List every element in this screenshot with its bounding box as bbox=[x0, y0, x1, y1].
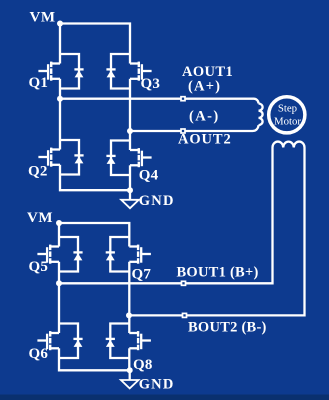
wire Q7 source through crossover to BOUT2 node bbox=[128, 272, 130, 316]
svg-text:Q5: Q5 bbox=[29, 259, 49, 275]
svg-text:Step: Step bbox=[278, 103, 297, 115]
svg-text:BOUT2 (B-): BOUT2 (B-) bbox=[188, 320, 267, 336]
node BOUT1 (junction dot) bbox=[56, 280, 62, 286]
svg-text:Q7: Q7 bbox=[132, 267, 152, 283]
svg-text:(A+): (A+) bbox=[188, 79, 221, 95]
node VM-B (junction dot) bbox=[56, 220, 62, 226]
inductor winding A (motor phase A coil) bbox=[259, 104, 263, 126]
node GND-A junction (junction dot) bbox=[127, 187, 133, 193]
svg-text:VM: VM bbox=[30, 10, 56, 26]
wire motor winding B right leg to BOUT2 (B-) bbox=[129, 148, 305, 316]
transistor Q5 (NMOS with body diode) bbox=[37, 237, 78, 272]
wire Q4 source to ground rail A bbox=[129, 175, 131, 190]
diode D7 (body diode of Q7) bbox=[106, 252, 115, 260]
wire motor winding A to AOUT2 (A-) bbox=[130, 125, 259, 131]
svg-text:Q8: Q8 bbox=[133, 357, 153, 373]
svg-text:VM: VM bbox=[27, 210, 53, 226]
terminal A+ (connector square) bbox=[181, 97, 185, 101]
transistor Q7 (NMOS with body diode) bbox=[110, 237, 151, 272]
wire Q6 source to ground rail B bbox=[59, 358, 129, 370]
svg-text:(A-): (A-) bbox=[189, 109, 220, 125]
transistor Q6 (NMOS with body diode) bbox=[37, 324, 78, 359]
svg-text:BOUT1 (B+): BOUT1 (B+) bbox=[177, 265, 259, 281]
wire Q5 source to BOUT1 node bbox=[58, 272, 60, 284]
wire Q3 source through crossover to AOUT2 node bbox=[129, 89, 131, 132]
diode D8 (body diode of Q8) bbox=[106, 339, 115, 347]
bottom edge band bbox=[0, 395, 329, 400]
ground GND-B bbox=[121, 370, 139, 388]
svg-text:Q6: Q6 bbox=[29, 346, 49, 362]
wire AOUT2 node to Q4 drain bbox=[129, 131, 131, 141]
svg-text:Q4: Q4 bbox=[139, 168, 159, 184]
diode D4 (body diode of Q4) bbox=[106, 156, 115, 164]
svg-text:Motor: Motor bbox=[274, 116, 301, 128]
svg-text:Q2: Q2 bbox=[28, 164, 48, 180]
diode D3 (body diode of Q3) bbox=[106, 69, 115, 77]
node VM-A (junction dot) bbox=[57, 21, 63, 27]
node AOUT2 (junction dot) bbox=[127, 128, 133, 134]
terminal B- (connector square) bbox=[183, 313, 187, 317]
svg-text:Q3: Q3 bbox=[141, 76, 161, 92]
diode D1 (body diode of Q1) bbox=[74, 69, 83, 77]
wire BOUT2 node to Q8 drain bbox=[128, 315, 130, 323]
wire Q8 source to ground rail B bbox=[128, 358, 130, 370]
transistor Q4 (NMOS with body diode) bbox=[111, 141, 152, 176]
inductor winding B (motor phase B coil) bbox=[273, 142, 305, 148]
svg-text:GND: GND bbox=[139, 377, 175, 393]
diode D2 (body diode of Q2) bbox=[74, 155, 83, 163]
ground GND-A bbox=[121, 190, 139, 208]
wire Q2 source to ground rail A bbox=[60, 175, 130, 191]
wire AOUT1 node to Q2 drain bbox=[59, 99, 61, 140]
wire AOUT1 (A+) to motor winding A bbox=[60, 99, 259, 104]
wire VM rail A (top) bbox=[60, 24, 130, 55]
motor M1 (Step Motor circle) bbox=[269, 97, 305, 133]
svg-text:Q1: Q1 bbox=[29, 75, 49, 91]
terminal A- (connector square) bbox=[181, 129, 185, 133]
transistor Q1 (NMOS with body diode) bbox=[38, 54, 79, 89]
node GND-B junction (junction dot) bbox=[127, 367, 133, 373]
transistor Q3 (NMOS with body diode) bbox=[111, 54, 152, 89]
wire Q1 source to AOUT1 node bbox=[59, 89, 61, 100]
wire VM rail B (lower bridge) bbox=[59, 223, 129, 237]
transistor Q8 (NMOS with body diode) bbox=[110, 324, 151, 359]
terminal B+ (connector square) bbox=[182, 281, 186, 285]
wire BOUT1 node to Q6 drain bbox=[58, 283, 60, 323]
wire BOUT1 (B+) to motor winding B left leg bbox=[59, 148, 273, 284]
node BOUT2 (junction dot) bbox=[126, 312, 132, 318]
svg-text:GND: GND bbox=[139, 193, 175, 209]
diode D6 (body diode of Q6) bbox=[73, 339, 82, 347]
node AOUT1 (junction dot) bbox=[57, 96, 63, 102]
svg-text:AOUT2: AOUT2 bbox=[178, 132, 232, 148]
diode D5 (body diode of Q5) bbox=[73, 252, 82, 260]
transistor Q2 (NMOS with body diode) bbox=[38, 140, 79, 175]
